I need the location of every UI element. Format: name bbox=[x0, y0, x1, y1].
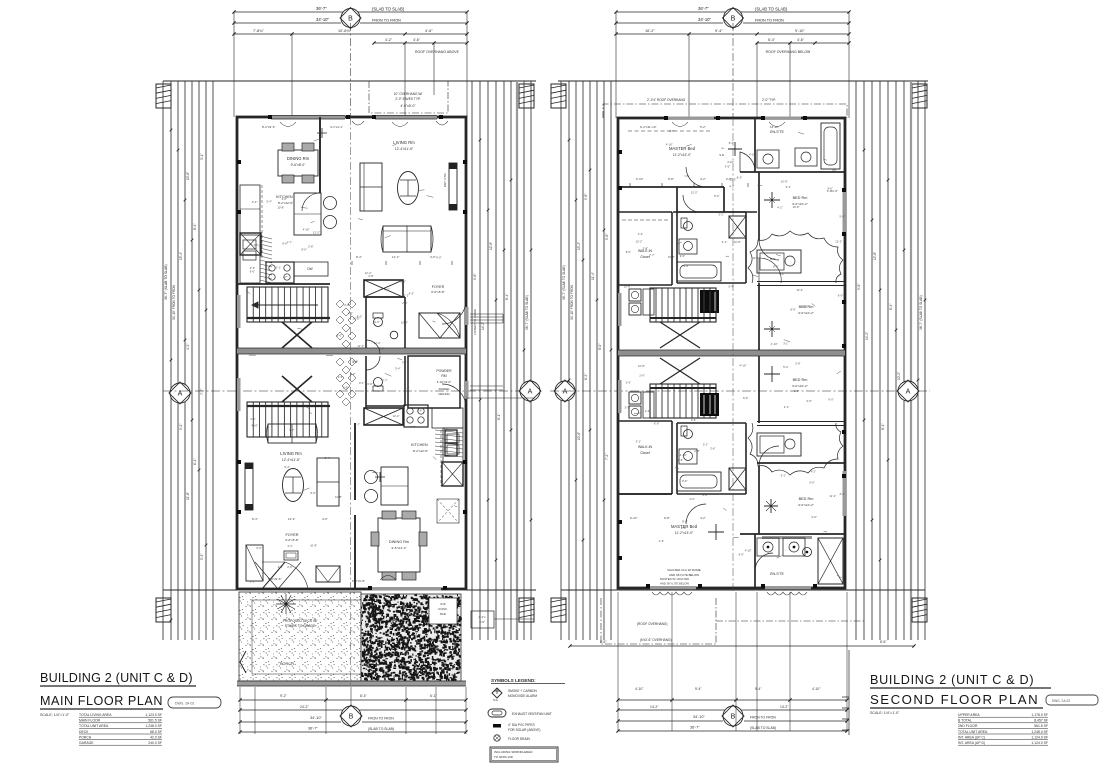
svg-text:9'-2"x11'-10": 9'-2"x11'-10" bbox=[640, 125, 657, 129]
svg-text:10'-8": 10'-8" bbox=[335, 495, 342, 499]
left plan: left wall window strip lower bbox=[237, 378, 241, 411]
unit D counter hatch bbox=[435, 430, 463, 433]
svg-text:1,178.0 SF: 1,178.0 SF bbox=[1031, 713, 1048, 717]
svg-text:9'-4": 9'-4" bbox=[755, 687, 762, 691]
svg-text:34'-10" FRON TO FRON: 34'-10" FRON TO FRON bbox=[172, 284, 176, 320]
svg-text:4'-10": 4'-10" bbox=[727, 160, 734, 164]
svg-text:6'-1": 6'-1" bbox=[193, 459, 197, 465]
svg-text:12'-2": 12'-2" bbox=[829, 494, 836, 498]
2F unit D stair rail bbox=[650, 387, 716, 389]
svg-text:A: A bbox=[178, 391, 183, 398]
left plan: grid bubble A right (inner) bbox=[519, 380, 541, 402]
left plan: roof overhang dash-dot rectangle (top right) bbox=[369, 81, 448, 113]
svg-text:9'-8": 9'-8" bbox=[668, 177, 674, 181]
svg-text:4'-10": 4'-10" bbox=[251, 424, 258, 428]
2F unit C wall x=724 down from master wall bbox=[723, 187, 725, 212]
svg-text:5'-4": 5'-4" bbox=[252, 200, 257, 204]
svg-text:SCALE: 1/4"=1'-0": SCALE: 1/4"=1'-0" bbox=[870, 711, 900, 715]
2F unit D ensuite sinks bbox=[762, 536, 812, 539]
svg-text:BUILDING 2 (UNIT C & D): BUILDING 2 (UNIT C & D) bbox=[870, 673, 1034, 687]
svg-text:DINING Rm: DINING Rm bbox=[287, 156, 310, 161]
svg-text:9'-0"x10'-2": 9'-0"x10'-2" bbox=[798, 503, 814, 507]
svg-text:12'-2": 12'-2" bbox=[288, 517, 295, 521]
2F unit D bath sink bbox=[679, 449, 697, 464]
svg-text:B: B bbox=[731, 714, 736, 721]
unit D TV unit on left wall bbox=[245, 463, 253, 510]
svg-text:9'-8": 9'-8" bbox=[584, 194, 588, 200]
left plan window swing arcs bbox=[280, 122, 408, 580]
unit C counter hatch bbox=[260, 236, 272, 239]
svg-text:S.D.: S.D. bbox=[719, 153, 725, 157]
main floor title stamp box bbox=[168, 697, 221, 708]
svg-text:12'-8": 12'-8" bbox=[873, 252, 877, 260]
svg-text:1,124.0 SF: 1,124.0 SF bbox=[1031, 735, 1048, 739]
svg-text:2'-8": 2'-8" bbox=[278, 565, 283, 569]
svg-text:B: B bbox=[348, 16, 353, 23]
unit D foyer closet diagonals bbox=[255, 562, 278, 589]
2F unit D ensuite walls bbox=[754, 534, 756, 588]
unit D kitchen counter top bbox=[432, 408, 463, 428]
svg-text:9'-6": 9'-6" bbox=[282, 241, 287, 245]
left plan: section marker box top-right bbox=[519, 84, 534, 108]
svg-text:8'-4": 8'-4" bbox=[356, 255, 362, 259]
left plan: extension line x=405 bbox=[404, 43, 406, 117]
svg-text:8'-0": 8'-0" bbox=[444, 427, 449, 431]
svg-text:8'-2"x9'-6": 8'-2"x9'-6" bbox=[262, 125, 275, 129]
right plan: bottom band line y=590 bbox=[561, 589, 925, 591]
svg-text:6'-4": 6'-4" bbox=[889, 304, 893, 310]
unit D stair cross brace bbox=[282, 376, 312, 402]
svg-text:4'-10": 4'-10" bbox=[303, 228, 310, 232]
svg-text:SYMBOLS LEGEND:: SYMBOLS LEGEND: bbox=[491, 678, 536, 683]
svg-text:36'-7": 36'-7" bbox=[308, 727, 318, 731]
svg-text:9'-6": 9'-6" bbox=[684, 264, 689, 268]
svg-text:(ROOF OVERHANG): (ROOF OVERHANG) bbox=[637, 622, 667, 626]
svg-text:10'-8": 10'-8" bbox=[781, 180, 788, 184]
2F unit D master fan symbol bbox=[708, 524, 724, 540]
2F unit C master bed dashed header bbox=[628, 130, 712, 132]
2F unit C bath toilet bbox=[684, 222, 693, 231]
svg-text:7'-7": 7'-7" bbox=[289, 428, 294, 432]
unit C stair rail heavy line bbox=[247, 317, 330, 319]
svg-text:4'-2": 4'-2" bbox=[186, 344, 190, 350]
svg-text:2'-8": 2'-8" bbox=[643, 246, 648, 250]
unit D oval chair bbox=[283, 469, 304, 502]
svg-text:4'-10": 4'-10" bbox=[635, 687, 644, 691]
2F unit C ensuite door arc bbox=[740, 152, 755, 172]
svg-text:4'-2": 4'-2" bbox=[409, 291, 414, 295]
svg-text:FOR SOLAR (ABOVE): FOR SOLAR (ABOVE) bbox=[508, 728, 540, 732]
left plan: top wall window strip 2 bbox=[375, 116, 437, 119]
left plan: bottom extension verticals bbox=[239, 687, 241, 734]
legend exhaust fan symbol bbox=[488, 709, 506, 717]
svg-text:4'-10"x3'-0": 4'-10"x3'-0" bbox=[437, 380, 452, 384]
unit D foyer shoe cabinet bbox=[284, 551, 298, 560]
svg-text:9'-6": 9'-6" bbox=[250, 266, 255, 270]
svg-text:3'-1": 3'-1" bbox=[200, 154, 204, 160]
svg-text:11'-8": 11'-8" bbox=[186, 492, 190, 500]
right plan: grid line B inside building bbox=[732, 118, 734, 592]
right plan: grid bubble A left bbox=[554, 380, 576, 402]
svg-text:8'-0": 8'-0" bbox=[729, 141, 734, 145]
unit C stair hall wall bbox=[237, 283, 330, 285]
svg-text:RAISED: RAISED bbox=[439, 387, 450, 391]
left plan: grid bubble A left bbox=[169, 382, 191, 404]
svg-text:8'-0": 8'-0" bbox=[350, 372, 355, 376]
2F unit C bath top wall extension bbox=[673, 211, 757, 213]
svg-text:B: B bbox=[349, 714, 354, 721]
svg-text:(SLAB TO SLAB): (SLAB TO SLAB) bbox=[368, 727, 394, 731]
svg-text:12'-8": 12'-8" bbox=[489, 242, 493, 250]
svg-text:8'-0": 8'-0" bbox=[598, 344, 602, 350]
svg-text:SMOKE + CARBON: SMOKE + CARBON bbox=[508, 689, 537, 693]
svg-text:4'-2": 4'-2" bbox=[645, 409, 650, 413]
unit D pantry dashed rect bbox=[437, 499, 459, 523]
svg-text:10'-8": 10'-8" bbox=[401, 321, 408, 325]
svg-text:561.5 SF: 561.5 SF bbox=[1034, 724, 1048, 728]
left plan: extension line from dim to wall (right corner) bbox=[466, 12, 468, 117]
right plan: section marker box bottom-right bbox=[912, 598, 927, 622]
svg-text:MONOXIDE ALARM: MONOXIDE ALARM bbox=[508, 694, 537, 698]
2F unit D laundry washer dryer bbox=[629, 392, 641, 404]
unit C TV unit on right wall bbox=[449, 163, 457, 210]
svg-text:42.0 SF: 42.0 SF bbox=[150, 735, 162, 739]
svg-text:S.D.: S.D. bbox=[493, 698, 499, 702]
svg-text:2'-6": 2'-6" bbox=[681, 526, 686, 530]
unit D kitchen wall ovens right wall bbox=[445, 430, 457, 443]
svg-text:36'-7": 36'-7" bbox=[316, 6, 327, 11]
svg-text:3'-1": 3'-1" bbox=[402, 360, 407, 364]
svg-text:5'-4": 5'-4" bbox=[768, 38, 776, 42]
unit D wall between living and dining bbox=[354, 423, 356, 500]
svg-text:9'-6": 9'-6" bbox=[682, 479, 687, 483]
svg-text:4'-2": 4'-2" bbox=[700, 177, 706, 181]
svg-text:EN-S'TE: EN-S'TE bbox=[770, 572, 784, 576]
svg-text:2'-6": 2'-6" bbox=[794, 389, 799, 393]
right plan: party wall gray band bbox=[618, 350, 845, 356]
svg-text:A: A bbox=[528, 389, 533, 396]
svg-text:8'-0": 8'-0" bbox=[714, 194, 719, 198]
svg-text:2'-6": 2'-6" bbox=[287, 565, 292, 569]
svg-text:13'-2": 13'-2" bbox=[577, 242, 581, 250]
left plan: grid bubble B bottom bbox=[340, 705, 362, 727]
left plan: grid bubble B top bbox=[340, 8, 361, 29]
right plan: grid line B vertical dash-dot bbox=[732, 23, 734, 118]
2F unit D walk-in closet walls bbox=[618, 420, 672, 422]
svg-text:11'-4": 11'-4" bbox=[591, 272, 595, 280]
right plan: extension corners bbox=[615, 12, 617, 118]
svg-text:3'-1": 3'-1" bbox=[250, 417, 255, 421]
legend smoke alarm symbol bbox=[492, 688, 502, 698]
svg-text:10'-8": 10'-8" bbox=[277, 206, 284, 210]
unit C door arc dining to kitchen bbox=[302, 193, 320, 211]
svg-text:2'-6": 2'-6" bbox=[250, 579, 255, 583]
svg-text:FOYER: FOYER bbox=[432, 285, 445, 289]
svg-text:4'-2": 4'-2" bbox=[777, 205, 782, 209]
svg-text:6'-1": 6'-1" bbox=[430, 694, 438, 698]
legend floor drain symbol bbox=[494, 735, 500, 741]
svg-text:8'-0": 8'-0" bbox=[626, 250, 631, 254]
svg-text:PORCH: PORCH bbox=[79, 735, 92, 739]
svg-text:1,124.0 SF: 1,124.0 SF bbox=[1031, 741, 1048, 745]
svg-text:12'-2": 12'-2" bbox=[691, 191, 698, 195]
svg-text:9'-6": 9'-6" bbox=[374, 320, 379, 324]
svg-text:TOTAL UNIT AREA: TOTAL UNIT AREA bbox=[79, 724, 109, 728]
unit C kitchen counter left wall bbox=[240, 185, 260, 233]
svg-text:5'-4": 5'-4" bbox=[284, 465, 289, 469]
right plan: grid bubble B top bbox=[723, 8, 744, 29]
svg-text:2'-0" TYP.: 2'-0" TYP. bbox=[762, 98, 776, 102]
svg-text:240.0 SF: 240.0 SF bbox=[148, 741, 162, 745]
svg-text:8'-2"x12'-6": 8'-2"x12'-6" bbox=[278, 201, 293, 205]
unit C foyer tile diamonds bbox=[336, 300, 344, 308]
svg-text:4'-1"x: 4'-1"x bbox=[479, 615, 487, 619]
svg-text:3'-1": 3'-1" bbox=[784, 405, 789, 409]
svg-text:ENT. CTR.: ENT. CTR. bbox=[443, 173, 447, 188]
svg-text:3'-1": 3'-1" bbox=[718, 212, 723, 216]
svg-text:7'-2": 7'-2" bbox=[605, 454, 609, 460]
right plan: bottom dimension line 2 bbox=[618, 709, 847, 711]
svg-text:6'-10": 6'-10" bbox=[630, 516, 637, 520]
svg-text:34'-10": 34'-10" bbox=[310, 716, 322, 720]
svg-text:GARAGE: GARAGE bbox=[79, 741, 94, 745]
svg-text:KITCHEN: KITCHEN bbox=[411, 443, 428, 447]
svg-text:12'-2": 12'-2" bbox=[796, 288, 803, 292]
unit C fridge bbox=[240, 233, 261, 255]
svg-text:8'-0": 8'-0" bbox=[301, 248, 306, 252]
2F unit C closet rod dashes bbox=[622, 219, 668, 221]
2F unit C hall/bed wall vertical bbox=[758, 172, 760, 240]
unit C living room window arcs top bbox=[352, 121, 364, 125]
2F unit C ensuite walls bbox=[754, 118, 756, 172]
svg-text:4 RISERS TO GRADE: 4 RISERS TO GRADE bbox=[473, 309, 477, 335]
2F unit D bed room 3 walls bbox=[758, 356, 760, 423]
svg-text:BED Rm: BED Rm bbox=[793, 378, 808, 382]
porch white note box in stipple bbox=[429, 598, 457, 624]
right plan: bottom dimension line 3 (34-10) bbox=[618, 720, 723, 722]
svg-text:34'-10" FRON TO FRON: 34'-10" FRON TO FRON bbox=[570, 284, 574, 320]
svg-text:4'-6": 4'-6" bbox=[425, 29, 433, 33]
right plan: right stack gray line bbox=[910, 81, 912, 640]
svg-text:BED Rm: BED Rm bbox=[793, 196, 808, 200]
svg-text:2'-8": 2'-8" bbox=[726, 177, 732, 181]
left plan: unit D entry steps bbox=[470, 385, 503, 387]
svg-text:1,123.0 SF: 1,123.0 SF bbox=[145, 713, 162, 717]
svg-text:12'-4"x11'-6": 12'-4"x11'-6" bbox=[282, 458, 301, 462]
svg-text:AND SKYLITE BELOW: AND SKYLITE BELOW bbox=[660, 582, 689, 586]
unit D stairs bbox=[246, 402, 248, 437]
svg-text:8'-0": 8'-0" bbox=[311, 491, 316, 495]
svg-text:24'-2": 24'-2" bbox=[300, 705, 309, 709]
svg-text:4'-2": 4'-2" bbox=[638, 232, 643, 236]
2F unit D bed room 4 vertical wall bbox=[758, 466, 760, 534]
left plan: band line extensions at y=590 bbox=[163, 589, 237, 591]
svg-text:2'-8": 2'-8" bbox=[344, 303, 349, 307]
svg-text:9'-6": 9'-6" bbox=[680, 254, 685, 258]
right plan: bottom dim line y=646 bbox=[570, 645, 914, 647]
unit D kitchen upper cabinet dashed bbox=[440, 430, 442, 486]
right plan: top wall window strip 2 bbox=[765, 117, 801, 120]
svg-text:9'-6": 9'-6" bbox=[401, 279, 406, 283]
svg-text:36'-7": 36'-7" bbox=[698, 6, 709, 11]
svg-text:8'-2"x9'-6": 8'-2"x9'-6" bbox=[268, 577, 281, 581]
svg-text:7'-7": 7'-7" bbox=[355, 423, 360, 427]
svg-text:68.0 SF: 68.0 SF bbox=[150, 730, 162, 734]
svg-text:9'-6"x11'-0": 9'-6"x11'-0" bbox=[392, 546, 407, 550]
svg-text:12'-2": 12'-2" bbox=[392, 255, 399, 259]
svg-text:4'-6": 4'-6" bbox=[322, 517, 328, 521]
svg-text:9'-6": 9'-6" bbox=[807, 399, 812, 403]
2F unit C walk-in closet walls bbox=[618, 211, 672, 213]
unit C smoke detector plus bbox=[317, 128, 327, 138]
svg-text:6'-0": 6'-0" bbox=[809, 480, 814, 484]
left plan: section marker box right-bottom bbox=[519, 598, 534, 622]
svg-text:2'-6": 2'-6" bbox=[690, 497, 695, 501]
svg-text:6'-0": 6'-0" bbox=[828, 398, 833, 402]
svg-text:4'-0"x5'-0": 4'-0"x5'-0" bbox=[400, 104, 416, 108]
svg-text:2'-8": 2'-8" bbox=[694, 449, 699, 453]
svg-text:4'-10": 4'-10" bbox=[749, 153, 756, 157]
svg-text:POWDER: POWDER bbox=[436, 369, 452, 373]
left plan: left stack tick marks bbox=[170, 129, 173, 132]
svg-text:4'-10": 4'-10" bbox=[771, 342, 778, 346]
svg-text:(SLAB TO SLAB): (SLAB TO SLAB) bbox=[755, 7, 788, 12]
2F unit D bath toilet bbox=[684, 430, 693, 439]
left plan: grid line A horizontal dash-dot bbox=[163, 390, 540, 392]
legend note box bbox=[490, 747, 558, 762]
svg-text:2'-6": 2'-6" bbox=[282, 197, 287, 201]
right plan: section marker box top-right bbox=[912, 84, 927, 108]
svg-text:RM: RM bbox=[441, 374, 446, 378]
svg-text:8'-0": 8'-0" bbox=[682, 520, 687, 524]
svg-text:7'-7": 7'-7" bbox=[410, 425, 415, 429]
svg-text:5'-4": 5'-4" bbox=[783, 365, 788, 369]
svg-text:5'-4": 5'-4" bbox=[267, 200, 272, 204]
svg-text:ROOF OVERHANG BELOW: ROOF OVERHANG BELOW bbox=[766, 50, 811, 54]
svg-text:STAIRS TO GRADE: STAIRS TO GRADE bbox=[285, 624, 316, 628]
2F unit C bedroom2 door arc bbox=[759, 258, 781, 283]
svg-text:34'-10": 34'-10" bbox=[698, 17, 712, 22]
svg-text:9'-0"x10'-2": 9'-0"x10'-2" bbox=[798, 311, 814, 315]
svg-text:MAIN FLOOR: MAIN FLOOR bbox=[79, 719, 101, 723]
svg-text:4'x4': 4'x4' bbox=[440, 602, 446, 606]
svg-text:ROOF OVERHANG ABOVE: ROOF OVERHANG ABOVE bbox=[415, 50, 460, 54]
svg-text:EN-S'TE: EN-S'TE bbox=[770, 130, 784, 134]
svg-text:1,248.0 SF: 1,248.0 SF bbox=[1031, 730, 1048, 734]
svg-text:12'-2": 12'-2" bbox=[752, 256, 759, 260]
right plan: bottom dimension line 4 (36-7 slab) bbox=[618, 730, 847, 732]
svg-text:PROPOSED DECK W/: PROPOSED DECK W/ bbox=[283, 619, 318, 623]
svg-text:8,457 SF: 8,457 SF bbox=[1034, 719, 1048, 723]
right plan: top dimension line 3 bbox=[616, 33, 849, 35]
svg-text:5'-4": 5'-4" bbox=[827, 189, 832, 193]
svg-text:10'-2": 10'-2" bbox=[897, 372, 901, 380]
svg-text:8'-6": 8'-6" bbox=[880, 640, 887, 644]
porch inner dotted rect bbox=[252, 600, 378, 674]
unit D smoke detector plus bbox=[375, 472, 385, 482]
svg-text:6'-8"x6'-8": 6'-8"x6'-8" bbox=[352, 579, 365, 583]
svg-text:INT. AREA (UP D): INT. AREA (UP D) bbox=[958, 741, 985, 745]
svg-text:4'-2": 4'-2" bbox=[348, 311, 353, 315]
svg-text:FRON TO FRON: FRON TO FRON bbox=[368, 717, 394, 721]
svg-text:2'-6": 2'-6" bbox=[639, 374, 644, 378]
svg-text:6'-0": 6'-0" bbox=[436, 256, 441, 260]
2F unit C ensuite tub bbox=[821, 123, 840, 169]
svg-text:8'-1": 8'-1" bbox=[497, 414, 501, 420]
2F unit D solar pipe chase (black) bbox=[700, 393, 719, 416]
svg-text:TOTAL LIVING AREA: TOTAL LIVING AREA bbox=[79, 713, 112, 717]
unit C oval chair bbox=[398, 172, 419, 205]
unit C island stools bbox=[324, 197, 337, 210]
svg-text:16'-10": 16'-10" bbox=[770, 125, 779, 129]
right plan: left dimension stack vertical lines bbox=[560, 81, 562, 640]
svg-text:MAIN FLOOR PLAN: MAIN FLOOR PLAN bbox=[40, 694, 163, 708]
svg-text:6'-0": 6'-0" bbox=[703, 493, 708, 497]
right plan: bottom extension verticals bbox=[617, 592, 619, 731]
unit C loveseat bbox=[383, 226, 431, 252]
2F unit D bedroom3 fan symbol bbox=[764, 366, 780, 382]
right plan: roof overhang dash rect bottom bbox=[601, 598, 716, 644]
2F unit C laundry washer dryer bbox=[629, 289, 641, 301]
left plan: entry steps outside right wall bbox=[470, 313, 503, 315]
left plan: left wall window strip upper bbox=[237, 295, 241, 328]
left plan: bottom dimension line 2 bbox=[240, 709, 466, 711]
2F unit C bedroom1 door arc bbox=[759, 240, 779, 260]
2F unit C bath sink bbox=[679, 239, 697, 254]
svg-text:A: A bbox=[906, 389, 911, 396]
svg-text:3'-1": 3'-1" bbox=[636, 439, 641, 443]
porch dense stipple block bbox=[361, 594, 461, 681]
svg-text:3'-1": 3'-1" bbox=[722, 240, 727, 244]
left plan: right stack tick marks bbox=[479, 139, 482, 142]
svg-text:INCLUDING SPRINKLERED: INCLUDING SPRINKLERED bbox=[494, 750, 533, 754]
svg-text:4'-2": 4'-2" bbox=[385, 38, 393, 42]
svg-text:36'-7" (SLAB TO SLAB): 36'-7" (SLAB TO SLAB) bbox=[164, 264, 168, 300]
svg-text:4'-6": 4'-6" bbox=[413, 38, 421, 42]
svg-text:6'-2": 6'-2" bbox=[584, 374, 588, 380]
svg-text:A: A bbox=[563, 389, 568, 396]
left plan: full-width band line y=81 bbox=[163, 80, 536, 82]
svg-text:7'-7": 7'-7" bbox=[200, 389, 204, 395]
svg-text:WALK-IN: WALK-IN bbox=[638, 445, 653, 449]
2F unit C bath walls bbox=[677, 211, 746, 213]
left plan: party wall gray band bbox=[237, 348, 466, 354]
svg-text:4'-10": 4'-10" bbox=[812, 687, 821, 691]
unit C counter right of stove bbox=[294, 262, 328, 276]
svg-text:DINING Rm: DINING Rm bbox=[389, 540, 409, 544]
unit C coat closet with door diagonals bbox=[419, 313, 460, 338]
unit D powder walls right bbox=[408, 356, 460, 408]
2F unit D stairs bbox=[649, 384, 651, 418]
svg-text:5'-4": 5'-4" bbox=[840, 214, 845, 218]
svg-text:7'-7": 7'-7" bbox=[382, 378, 387, 382]
svg-text:DW: DW bbox=[307, 267, 312, 271]
svg-text:9'-10": 9'-10" bbox=[795, 29, 805, 33]
unit D living loveseat bbox=[268, 424, 316, 443]
svg-text:5'-2": 5'-2" bbox=[700, 125, 706, 129]
svg-text:36'-7" (SLAB TO SLAB): 36'-7" (SLAB TO SLAB) bbox=[562, 265, 566, 300]
right plan: right wall window upper bbox=[843, 190, 847, 235]
svg-text:FOYER: FOYER bbox=[285, 533, 298, 537]
svg-text:10'-6¾": 10'-6¾" bbox=[338, 29, 351, 33]
left plan: grid line B inside building bbox=[350, 117, 352, 686]
porch planter starburst symbol bbox=[276, 594, 296, 614]
svg-text:9'-6": 9'-6" bbox=[417, 409, 422, 413]
unit C dining room table with chairs bbox=[278, 150, 318, 176]
unit D front door swing bbox=[262, 562, 285, 589]
svg-text:10" OVERHANG W/: 10" OVERHANG W/ bbox=[394, 92, 423, 96]
svg-text:4'-1"x4'-1": 4'-1"x4'-1" bbox=[330, 125, 343, 129]
